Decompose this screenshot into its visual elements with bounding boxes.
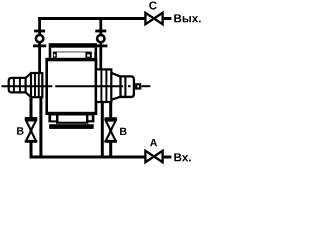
right shaft stub box xyxy=(136,84,140,88)
wire second right riser xyxy=(101,102,104,157)
bottom right bolt white center xyxy=(88,116,91,121)
top cover right white gap xyxy=(92,52,95,58)
left shaft box xyxy=(9,78,26,93)
left cone top edge xyxy=(26,73,31,78)
valve B left (hourglass) xyxy=(25,118,37,141)
right coupling block xyxy=(96,69,111,102)
label Вх. xyxy=(174,153,190,161)
bottom left bolt white center xyxy=(51,116,56,121)
top cover cap xyxy=(49,43,97,48)
label B right xyxy=(120,128,126,135)
label Вых. xyxy=(174,14,200,22)
valve C (bowtie) xyxy=(145,13,162,24)
top cover left side bar xyxy=(49,48,52,52)
top cover right side bar xyxy=(95,48,98,52)
check valve right (circle) xyxy=(94,31,107,46)
left block internal lines xyxy=(34,74,36,97)
check valve left (circle) xyxy=(33,31,46,46)
label C xyxy=(149,1,156,9)
top left bolt white center xyxy=(54,54,56,56)
wire left drain riser (valve B left) xyxy=(30,98,33,159)
left coupling block xyxy=(31,73,42,97)
wire right riser xyxy=(99,17,102,70)
bottom flange neck bottom edge xyxy=(56,122,88,124)
top right bolt white center xyxy=(87,54,90,56)
wire bottom suction pipe xyxy=(30,156,145,159)
top cover flange band xyxy=(49,52,97,58)
centerline xyxy=(2,85,151,87)
pump body xyxy=(45,58,97,115)
right block internal lines xyxy=(100,70,102,102)
wire bottom stub to inlet xyxy=(164,156,172,159)
right cone bottom edge xyxy=(111,97,120,100)
top cover neck slot xyxy=(57,52,86,57)
label B left xyxy=(17,127,23,134)
bottom flange band xyxy=(48,115,94,122)
wire top discharge pipe xyxy=(38,17,144,20)
bottom flange cap xyxy=(49,124,93,129)
wire top stub to outlet xyxy=(164,17,172,20)
bottom flange neck slot xyxy=(59,116,87,122)
label A xyxy=(150,139,157,146)
pump body interior xyxy=(48,61,95,112)
valve A (bowtie) xyxy=(145,151,162,162)
top cover left white gap xyxy=(51,52,53,58)
left cone bottom edge xyxy=(26,92,31,97)
left shaft box internal lines xyxy=(13,77,15,93)
right shaft box internal line xyxy=(124,77,126,97)
wire right drain riser (valve B right) xyxy=(109,102,112,157)
right cone top edge xyxy=(111,73,120,77)
valve B right (hourglass) xyxy=(105,119,117,142)
wire left riser xyxy=(38,17,41,73)
right shaft box xyxy=(121,76,134,97)
wire second left riser xyxy=(39,98,42,158)
